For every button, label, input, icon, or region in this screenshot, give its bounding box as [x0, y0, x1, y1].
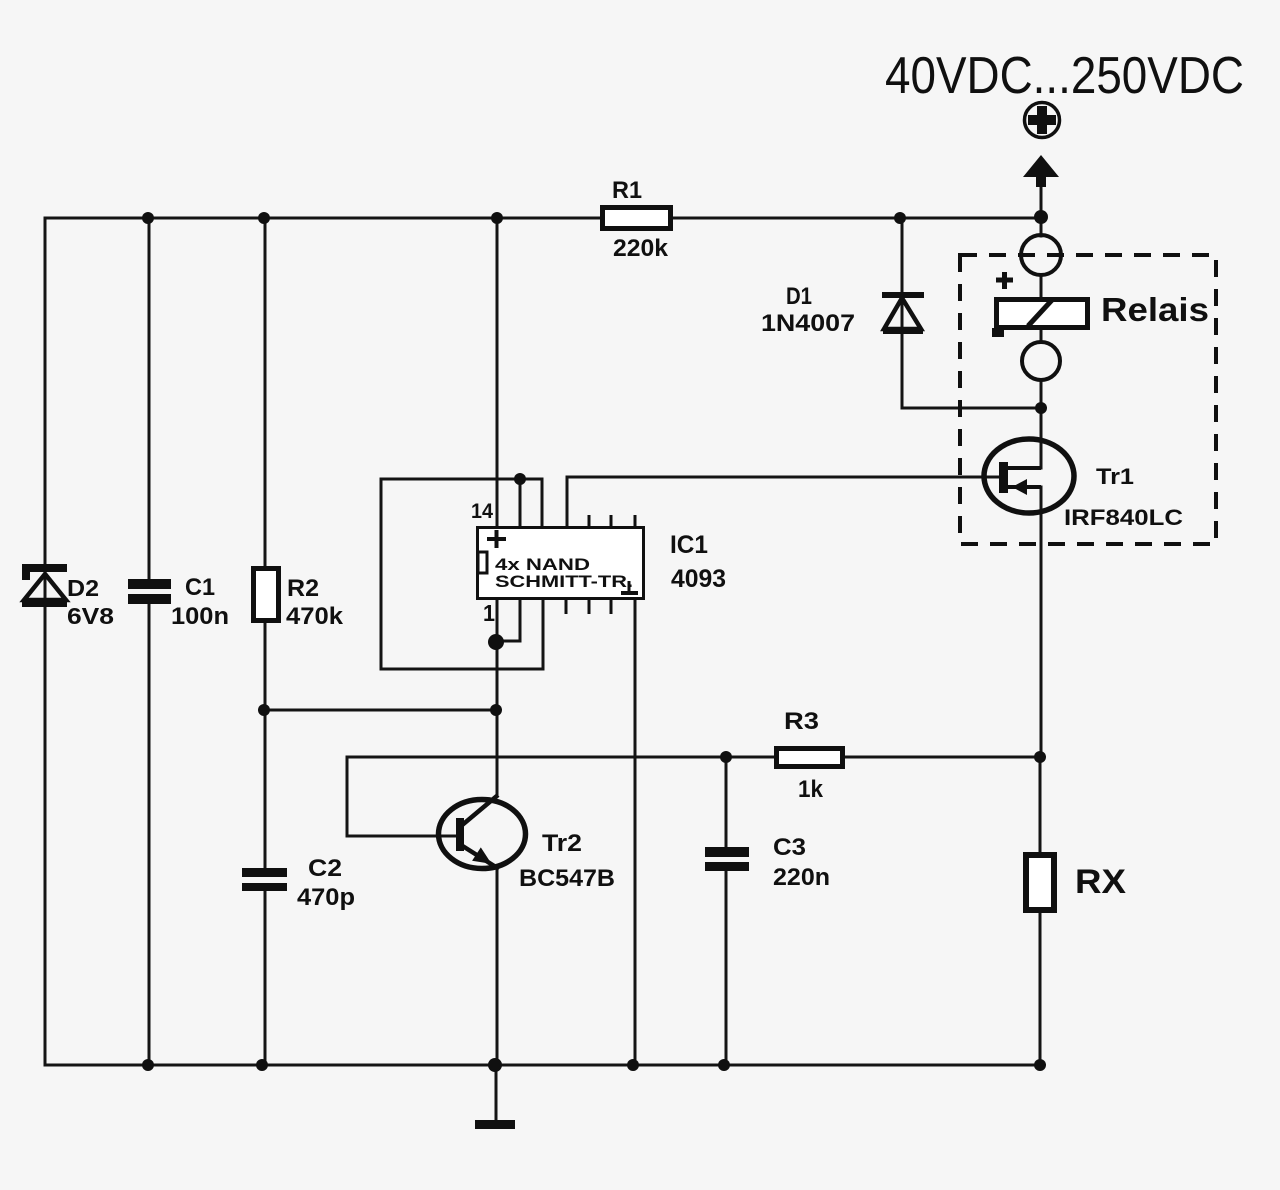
svg-text:470k: 470k — [286, 603, 344, 630]
wire gate horizontal — [567, 476, 1000, 479]
capacitor C2 — [242, 868, 287, 877]
svg-text:Tr2: Tr2 — [542, 830, 582, 857]
svg-text:1N4007: 1N4007 — [761, 310, 855, 337]
svg-text:BC547B: BC547B — [519, 865, 615, 892]
wire RX top — [1039, 757, 1042, 853]
wire pin14 vertical — [496, 218, 499, 527]
wire R3 right — [843, 756, 1041, 759]
wire ground stub — [495, 1065, 498, 1120]
svg-text:D1: D1 — [786, 283, 812, 310]
wire relay chain — [1040, 218, 1043, 236]
diode D1 — [882, 292, 924, 334]
top stubs — [588, 515, 591, 526]
relay coil — [992, 272, 1088, 337]
plus mark — [487, 537, 506, 541]
wire Tr2 emitter down — [496, 869, 499, 1065]
wire top rail right — [672, 217, 1041, 220]
wire R2 vertical upper — [264, 218, 267, 567]
svg-text:IC1: IC1 — [670, 531, 708, 559]
ground — [475, 1120, 515, 1129]
wire feedback bottom — [381, 668, 543, 671]
wire D1 vertical — [901, 218, 904, 408]
bottom stubs — [565, 600, 568, 614]
wire R2 to pin1 horizontal — [264, 709, 496, 712]
resistor R3 — [777, 749, 843, 767]
capacitor C1 — [128, 579, 171, 589]
relay terminal top — [1021, 235, 1061, 275]
wire C1 vertical upper — [148, 218, 151, 580]
wire Tr2 base horizontal — [347, 835, 456, 838]
svg-text:C3: C3 — [773, 834, 806, 861]
resistor RX — [1026, 855, 1054, 910]
svg-text:RX: RX — [1075, 863, 1126, 901]
svg-text:C1: C1 — [185, 574, 215, 601]
wire L pin down — [519, 600, 522, 641]
dashed box relay/Tr1 — [960, 255, 1216, 544]
svg-text:1k: 1k — [798, 776, 824, 803]
svg-text:220n: 220n — [773, 864, 830, 891]
wire RX bottom — [1039, 912, 1042, 1065]
svg-text:470p: 470p — [297, 884, 355, 911]
wire D1 to relay — [902, 407, 1041, 410]
svg-text:1: 1 — [483, 600, 495, 626]
wire feedback top — [381, 478, 542, 481]
wire feedback pin down b — [541, 479, 544, 527]
wire gate pin up — [566, 477, 569, 527]
resistor R2 — [254, 569, 279, 621]
relay terminal bottom — [1022, 342, 1060, 380]
resistor R1 — [603, 208, 671, 229]
svg-text:14: 14 — [471, 500, 493, 523]
wire bottom rail — [45, 1064, 1040, 1067]
svg-text:R2: R2 — [287, 575, 319, 602]
svg-text:Tr1: Tr1 — [1096, 464, 1134, 489]
zener diode D2 — [22, 564, 67, 607]
wire feedback left vertical — [380, 479, 383, 669]
capacitor C3 — [705, 847, 749, 857]
left notch — [478, 552, 487, 573]
svg-text:SCHMITT-TR.: SCHMITT-TR. — [495, 572, 633, 591]
supply plus terminal — [1025, 103, 1060, 138]
wire C3 upper — [725, 757, 728, 848]
wire C1 vertical lower — [148, 603, 151, 1065]
supply arrow — [1023, 155, 1059, 187]
wire R3 left — [347, 756, 776, 759]
wire R2 vertical middle — [264, 623, 267, 869]
svg-text:6V8: 6V8 — [67, 603, 114, 629]
wire R2 vertical lower — [264, 890, 267, 1065]
svg-text:Relais: Relais — [1101, 291, 1209, 328]
svg-text:C2: C2 — [308, 855, 342, 882]
wire C3 lower — [725, 870, 728, 1065]
wire feedback pin down a — [519, 479, 522, 527]
wire IC pin8 vertical — [634, 600, 637, 1065]
svg-text:R1: R1 — [612, 177, 642, 204]
ground glyph — [628, 581, 631, 592]
svg-text:IRF840LC: IRF840LC — [1064, 505, 1183, 530]
wire Tr1 source down — [1040, 487, 1043, 757]
wire feedback right vertical — [542, 600, 545, 669]
svg-text:40VDC...250VDC: 40VDC...250VDC — [885, 47, 1244, 105]
wire L horizontal — [496, 640, 520, 643]
svg-text:100n: 100n — [171, 603, 229, 630]
wire Tr2 base vertical — [346, 757, 349, 836]
IC1 4093 — [478, 515, 644, 614]
wire top rail left — [45, 217, 601, 220]
transistor Tr2 — [439, 795, 526, 871]
svg-text:R3: R3 — [784, 708, 819, 735]
svg-text:4093: 4093 — [671, 565, 726, 593]
wire supply stem — [1040, 184, 1043, 218]
wire pin1 vertical to Tr2 collector — [496, 600, 499, 795]
svg-text:220k: 220k — [613, 235, 669, 262]
mosfet Tr1 — [984, 439, 1074, 513]
wire left vertical — [44, 218, 47, 1065]
svg-text:D2: D2 — [67, 575, 99, 601]
